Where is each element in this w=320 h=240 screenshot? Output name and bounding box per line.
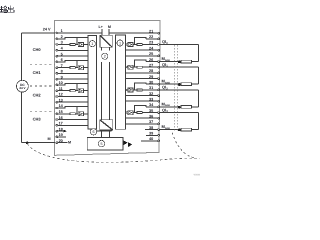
feedback loop CH0 (right) [134, 38, 146, 45]
op-amp output driver CH1 (left) [78, 66, 83, 70]
node shield junction CH1 [178, 83, 181, 86]
resistor channel CH3 (left) [70, 113, 75, 115]
svg-text:2: 2 [104, 55, 106, 59]
terminal 2 (left) [56, 38, 58, 40]
wire sense row terminal 34 [146, 106, 158, 108]
feedback junction vertical (left) [76, 61, 78, 68]
wire terminal 39 stub [146, 134, 158, 136]
terminal 25 (right) [158, 55, 160, 57]
wire terminal 13 to DAC box [57, 101, 88, 103]
terminal 35 (right) [158, 112, 160, 114]
wire DAC to op-amp CH0 (right) [125, 44, 128, 46]
wire M power return from terminal 21 [109, 32, 158, 34]
wire M ANA to load CH0 [160, 61, 181, 63]
wire resistor to terminal 35 [142, 112, 158, 114]
label 输出 (output) - drawn glyph 出 [8, 5, 14, 12]
feedback loop CH3 (right) [134, 106, 146, 113]
circled 1 (left DAC) [89, 41, 95, 47]
wire load return CH0 [192, 61, 199, 63]
terminal 10 (left) [56, 84, 58, 86]
terminal 5 (left) [56, 55, 58, 57]
terminal 13 (left) [56, 101, 58, 103]
svg-text:M: M [108, 25, 111, 29]
wire terminal 32 from DAC [126, 95, 158, 97]
terminal 33 (right) [158, 100, 160, 102]
wire load return CH3 [192, 129, 199, 131]
op-amp output driver CH2 (left) [78, 89, 83, 93]
terminal 22 (right) [158, 38, 160, 40]
svg-text:5: 5 [100, 142, 102, 146]
svg-text:CH0: CH0 [33, 47, 42, 52]
wire op-amp to resistor CH2 [133, 89, 137, 91]
wire load return CH1 [192, 83, 199, 85]
svg-text:www: www [194, 172, 200, 176]
svg-text:6: 6 [92, 130, 94, 134]
wire op-amp to DAC box [84, 113, 89, 115]
wire internal supply bus right [109, 47, 111, 50]
wire M lead [108, 29, 110, 35]
svg-text:24 V: 24 V [43, 27, 51, 31]
wire terminal 16 to DAC box [57, 119, 88, 121]
wire load loop vertical CH2 [197, 90, 199, 107]
wire bus to backplane interface right [109, 130, 111, 138]
wire isolation to circled 6 [97, 130, 112, 132]
wire terminal 38 stub [145, 129, 158, 131]
feedback loop CH1 (right) [134, 60, 146, 67]
wire terminal 36 from DAC [126, 117, 158, 119]
wire terminal 15 to resistor [57, 113, 70, 115]
wire terminal 11 to resistor [57, 90, 70, 92]
wire resistor to terminal 23 [142, 44, 158, 46]
wire terminal 17 to DAC box [57, 124, 88, 126]
terminal 40 (right) [158, 140, 160, 142]
wire op-amp to DAC box [84, 44, 89, 46]
resistor channel CH2 (right) [137, 89, 142, 91]
wire load return CH2 [192, 106, 199, 108]
wire QI3 to load [160, 112, 198, 114]
terminal 4 (left) [56, 49, 58, 51]
svg-text:M: M [48, 137, 51, 141]
wire 24V rail top [22, 32, 56, 34]
DC/DC isolation converter (lower) [100, 120, 113, 130]
node junction dot on M wire [26, 142, 29, 145]
wire resistor to terminal 31 [142, 89, 158, 91]
load resistor RL channel 1 [181, 83, 192, 86]
wire terminal 8 to DAC box [57, 72, 88, 74]
svg-text:CH3: CH3 [33, 117, 42, 122]
wire terminal 40 stub [141, 140, 158, 142]
terminal 18 (left) [56, 130, 58, 132]
wire op-amp to resistor CH3 [133, 112, 137, 114]
terminal 23 (right) [158, 44, 160, 46]
wire M return bottom [22, 142, 56, 144]
input node circle CH1 (right) [126, 66, 128, 68]
svg-text:M: M [68, 141, 71, 145]
wire terminal 7 to resistor [57, 67, 70, 69]
wire resistor to op-amp CH3 [75, 113, 78, 115]
wire terminal 4 to DAC box [57, 49, 88, 51]
wire internal supply bus left [101, 47, 103, 50]
wire L+ lead [101, 29, 103, 35]
terminal 29 (right) [158, 78, 160, 80]
wire terminal 3 to resistor [57, 44, 70, 46]
wire terminal 33 from DAC [126, 100, 158, 102]
resistor channel CH3 (right) [137, 112, 142, 114]
op-amp current driver CH2 (right) [128, 88, 133, 92]
wire resistor to op-amp CH1 [75, 67, 78, 69]
load resistor RL channel 0 [181, 60, 192, 63]
terminal 19 (left) [56, 136, 58, 138]
power supply DC 24V source circle [17, 80, 29, 92]
terminal 34 (right) [158, 106, 160, 108]
load resistor RL channel 3 [181, 128, 192, 131]
DAC block right (tall box) [116, 35, 126, 129]
resistor channel CH1 (right) [137, 66, 142, 68]
terminal 27 (right) [158, 66, 160, 68]
input node circle CH3 (right) [126, 112, 128, 114]
arrow mark at terminal 18 [64, 130, 67, 133]
wire L+ feed from terminal 1 [57, 32, 102, 34]
wire resistor to terminal 27 [142, 66, 158, 68]
terminal 12 (left) [56, 96, 58, 98]
wire QI2 to load [160, 89, 198, 91]
resistor channel CH0 (right) [137, 44, 142, 46]
terminal 37 (right) [158, 123, 160, 125]
wire QI0 to load [160, 44, 198, 46]
op-amp current driver CH0 (right) [128, 43, 133, 47]
channel separator dashed line [30, 110, 55, 112]
terminal 32 (right) [158, 95, 160, 97]
terminal 20 (left) [56, 142, 58, 144]
terminal 17 (left) [56, 124, 58, 126]
terminal 30 (right) [158, 83, 160, 85]
shield bonding dashed branch (right) [172, 133, 195, 158]
wire sense loop row terminal 14 [57, 107, 88, 108]
wire load loop vertical CH0 [197, 45, 199, 62]
input node circle CH2 (right) [126, 89, 128, 91]
channel separator dashed line [30, 85, 55, 87]
wire load loop vertical CH1 [197, 67, 199, 84]
DC/DC converter (power section) [100, 35, 112, 47]
wire terminal 29 from DAC [126, 78, 158, 80]
module outline (analog output module) [55, 20, 161, 155]
wire M ANA to load CH3 [160, 129, 181, 131]
node shield junction CH0 [178, 61, 181, 64]
channel separator dashed line [30, 64, 55, 66]
node shield junction CH2 [178, 106, 181, 109]
wire sense row terminal 22 [146, 38, 158, 40]
terminal 21 (right) [158, 32, 160, 34]
terminal 14 (left) [56, 107, 58, 109]
circled 5 (backplane interface) [98, 140, 105, 147]
wire terminal 24 from DAC [126, 49, 158, 51]
terminal 28 (right) [158, 72, 160, 74]
wire sense loop row terminal 10 [57, 84, 88, 85]
svg-text:1: 1 [91, 42, 93, 46]
terminal 3 (left) [56, 44, 58, 46]
terminal 1 (left) [56, 32, 58, 34]
DAC block left (tall box) [88, 35, 97, 128]
svg-text:CH2: CH2 [33, 93, 42, 98]
wire terminal 25 from DAC [126, 55, 158, 57]
wire terminal 9 to DAC box [57, 78, 88, 80]
label 输出 (output) - drawn glyph 输 [0, 6, 7, 13]
wire op-amp to DAC box [84, 90, 89, 92]
load resistor RL channel 2 [181, 106, 192, 109]
svg-text:L+: L+ [98, 25, 102, 29]
bus connector arrows [124, 140, 128, 145]
wire op-amp to DAC box [84, 67, 89, 69]
wire DAC to op-amp CH3 (right) [125, 112, 128, 114]
shielded cable dashed line B [177, 45, 179, 131]
circled 6 (isolation) [90, 129, 96, 135]
terminal 15 (left) [56, 113, 58, 115]
terminal 24 (right) [158, 49, 160, 51]
wire bus to backplane interface left [101, 130, 103, 138]
wire QI1 to load [160, 66, 198, 68]
op-amp current driver CH1 (right) [128, 65, 133, 69]
wire sense loop row terminal 6 [57, 61, 88, 62]
node shield junction CH3 [178, 129, 181, 132]
backplane bus interface box [87, 138, 123, 151]
feedback junction vertical (left) [76, 84, 78, 91]
feedback junction vertical (left) [76, 37, 78, 44]
wire load loop vertical CH3 [197, 113, 199, 130]
terminal 39 (right) [158, 134, 160, 136]
wire terminal 5 to DAC box [57, 55, 88, 57]
wire terminal 12 to DAC box [57, 96, 88, 98]
wire terminal 18 stub [57, 130, 63, 132]
resistor channel CH2 (left) [70, 90, 75, 92]
resistor channel CH1 (left) [70, 67, 75, 69]
svg-text:CH1: CH1 [33, 70, 42, 75]
wire 24V rail left vertical (lower) [21, 92, 23, 143]
svg-text:24 V: 24 V [19, 86, 25, 90]
op-amp output driver CH3 (left) [78, 112, 83, 116]
terminal 9 (left) [56, 78, 58, 80]
wire M ANA to load CH1 [160, 83, 181, 85]
wire DAC to op-amp CH2 (right) [125, 89, 128, 91]
shield bonding dashed curve (bottom) [27, 144, 199, 163]
feedback loop CH2 (right) [134, 83, 146, 90]
shielded cable dashed line A [174, 45, 176, 131]
wire terminal 19 stub [57, 136, 66, 138]
wire sense row terminal 30 [146, 83, 158, 85]
wire terminal 28 from DAC [126, 72, 158, 74]
resistor channel CH0 (left) [70, 44, 75, 46]
wire 24V rail left vertical (upper) [21, 33, 23, 80]
wire DAC to op-amp CH1 (right) [125, 66, 128, 68]
terminal 36 (right) [158, 117, 160, 119]
wire sense loop row terminal 2 [57, 38, 88, 39]
feedback junction vertical (left) [76, 107, 78, 114]
wire sense row terminal 26 [146, 61, 158, 63]
wire resistor to op-amp CH0 [75, 44, 78, 46]
wire resistor to op-amp CH2 [75, 90, 78, 92]
terminal 16 (left) [56, 119, 58, 121]
op-amp output driver CH0 (left) [78, 43, 83, 47]
terminal 11 (left) [56, 90, 58, 92]
terminal 31 (right) [158, 89, 160, 91]
wire M ANA to load CH2 [160, 106, 181, 108]
terminal 7 (left) [56, 67, 58, 69]
op-amp current driver CH3 (right) [128, 111, 133, 115]
terminal 38 (right) [158, 129, 160, 131]
svg-text:1: 1 [119, 41, 121, 45]
circled 1 (right DAC) [117, 40, 123, 46]
terminal 8 (left) [56, 73, 58, 75]
wire op-amp to resistor CH0 [133, 44, 137, 46]
terminal 6 (left) [56, 61, 58, 63]
input node circle CH0 (right) [126, 44, 128, 46]
wire terminal 20 M stub (inside) [57, 142, 67, 144]
terminal 26 (right) [158, 61, 160, 63]
wire op-amp to resistor CH1 [133, 66, 137, 68]
wire terminal 37 from DAC [126, 123, 158, 125]
